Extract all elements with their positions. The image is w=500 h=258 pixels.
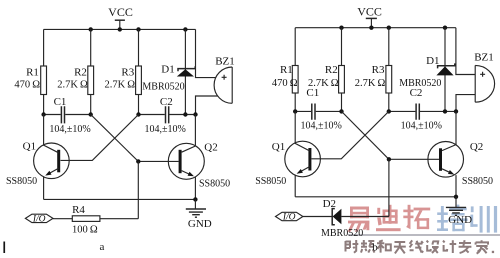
connector I/O right: [276, 212, 303, 222]
wire: top VCC rail right: [295, 27, 456, 29]
char pin: [361, 240, 375, 253]
svg-text:104,±10%: 104,±10%: [145, 124, 186, 135]
svg-text:2.7K Ω: 2.7K Ω: [355, 78, 386, 89]
svg-text:R2: R2: [74, 67, 87, 79]
svg-text:R4: R4: [72, 204, 85, 216]
wire: buzzer minus down to node row: [196, 96, 218, 115]
svg-text:104,±10%: 104,±10%: [401, 121, 442, 132]
svg-text:2.7K Ω: 2.7K Ω: [57, 80, 88, 91]
transistor Q2' SS8050 (right circuit): [389, 111, 493, 196]
char she2: [427, 241, 439, 253]
capacitor C1 104: [44, 96, 91, 135]
svg-text:SS8050: SS8050: [199, 179, 230, 190]
wire: cross-coupling diagonals left: [61, 115, 139, 162]
node: cap row dots left: [41, 112, 197, 116]
capacitor C1' 104: [295, 87, 342, 131]
svg-text:Q2: Q2: [470, 141, 483, 153]
svg-text:D2: D2: [323, 198, 336, 210]
char xian: [410, 240, 424, 252]
watermark underline: [348, 234, 500, 236]
svg-text:470 Ω: 470 Ω: [14, 80, 40, 91]
svg-text:GND: GND: [188, 218, 212, 230]
svg-text:BZ1: BZ1: [474, 52, 494, 64]
buzzer BZ1 left: [214, 55, 235, 103]
resistor R1 470ohm: [14, 29, 46, 114]
svg-text:D1: D1: [426, 55, 439, 67]
wire: emitter ground row left: [44, 198, 196, 200]
watermark big char pei (blue): [437, 205, 468, 232]
svg-text:C2: C2: [410, 87, 423, 99]
resistor R3 2.7K: [104, 29, 141, 114]
svg-text:Q1: Q1: [23, 141, 36, 153]
svg-text:SS8050: SS8050: [462, 176, 493, 187]
svg-text:104,±10%: 104,±10%: [49, 124, 90, 135]
svg-text:470 Ω: 470 Ω: [272, 78, 298, 89]
svg-text:SS8050: SS8050: [255, 176, 286, 187]
svg-text:R2: R2: [325, 64, 338, 76]
svg-text:BZ1: BZ1: [215, 55, 235, 67]
char jia: [476, 240, 488, 253]
diode D2 MBR0520 (schottky, horizontal, cathode left): [321, 198, 389, 239]
resistor R3' 2.7K: [355, 28, 392, 112]
svg-text:R1: R1: [280, 64, 293, 76]
char zhuan: [459, 240, 472, 253]
transistor Q1 SS8050 (left, mirrored): [6, 115, 69, 200]
svg-text:I/O: I/O: [282, 213, 296, 223]
node: ground row dot right: [454, 195, 458, 199]
transistor Q1' SS8050 (right circuit, mirrored): [255, 111, 320, 196]
svg-text:SS8050: SS8050: [6, 176, 37, 187]
char she: [346, 240, 359, 253]
svg-text:I/O: I/O: [32, 214, 46, 224]
wire: top VCC rail left: [44, 28, 196, 30]
svg-text:100 Ω: 100 Ω: [72, 225, 98, 236]
svg-text:Q2: Q2: [204, 142, 217, 154]
wire: rail end down to buzzer plus right: [456, 28, 475, 75]
diode D1 MBR0520 (schottky, vertical, cathode up): [142, 29, 195, 114]
svg-text:104,±10%: 104,±10%: [301, 121, 342, 132]
wire: buzzer minus down to node row right: [456, 95, 475, 112]
watermark tagline (grey-red small chars): [346, 240, 489, 254]
buzzer BZ1 right: [474, 52, 494, 103]
svg-text:VCC: VCC: [108, 5, 133, 19]
char he: [377, 240, 391, 252]
capacitor C2 104: [139, 96, 196, 135]
svg-text:D1: D1: [161, 63, 174, 75]
resistor R2' 2.7K: [308, 28, 344, 112]
node: rail junction dots right: [339, 26, 447, 30]
svg-text:a: a: [100, 241, 105, 253]
ground GND left: [186, 199, 212, 230]
svg-text:C2: C2: [160, 96, 173, 108]
wire: cross-coupling diagonals right: [312, 111, 389, 159]
svg-text:MBR0520: MBR0520: [321, 228, 363, 239]
diode D1' MBR0520 (schottky, vertical, cathode up): [399, 28, 455, 112]
node: ground row dot: [193, 197, 197, 201]
resistor R2 2.7K: [57, 29, 93, 114]
node: Q2 base node dot: [136, 159, 140, 163]
wire: base node down to I/O row right: [388, 159, 390, 216]
svg-text:2.7K Ω: 2.7K Ω: [104, 80, 135, 91]
wire: rail end down to buzzer plus: [196, 29, 216, 77]
svg-text:R3: R3: [121, 67, 134, 79]
svg-text:GND: GND: [448, 214, 472, 226]
stray mark bottom-left: [3, 242, 5, 254]
watermark big char tuo (pink): [403, 205, 430, 229]
wire: I/O to D2: [303, 216, 332, 218]
watermark big char yi (pink): [347, 207, 369, 232]
node: Q2' base node dot: [387, 157, 391, 161]
svg-text:C1: C1: [306, 87, 319, 99]
resistor R4 100ohm: [53, 204, 138, 236]
resistor R1' 470ohm: [272, 28, 298, 112]
transistor Q2 SS8050 (left): [138, 115, 230, 200]
node: rail junction dots left: [89, 27, 188, 31]
wire: emitter ground row right: [295, 196, 456, 198]
svg-text:VCC: VCC: [357, 5, 382, 19]
watermark big char di (pink): [376, 205, 401, 231]
node: cap row dots right: [293, 109, 458, 113]
svg-text:R1: R1: [26, 67, 39, 79]
capacitor C2' 104: [389, 87, 456, 131]
char tian: [394, 242, 406, 253]
svg-text:C1: C1: [54, 96, 67, 108]
VCC supply symbol left: [108, 5, 133, 30]
char ji: [443, 240, 456, 253]
svg-text:Q1: Q1: [272, 141, 285, 153]
wire: base node down to R4 row: [137, 161, 139, 218]
svg-text:R3: R3: [372, 64, 385, 76]
watermark big char xun (blue): [470, 206, 497, 233]
connector I/O left: [25, 214, 53, 224]
ground GND right: [446, 197, 472, 226]
svg-text:b: b: [372, 241, 378, 253]
VCC supply symbol right: [357, 5, 382, 28]
svg-text:MBR0520: MBR0520: [142, 81, 184, 92]
